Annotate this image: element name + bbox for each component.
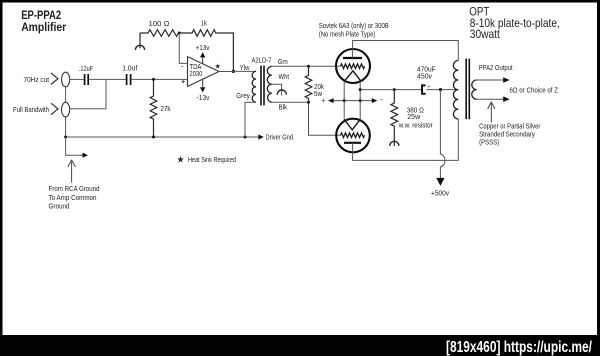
title OPT 8-10k plate-to-plate, 30watt xyxy=(469,5,560,41)
resistor 1k feedback xyxy=(179,18,233,71)
node junction bias tap xyxy=(359,88,362,91)
wire filament supply line xyxy=(333,100,372,102)
arrow Driver Gnd xyxy=(258,134,264,139)
svg-text:2030: 2030 xyxy=(190,71,203,78)
tube V2 bottom triode xyxy=(336,119,370,153)
svg-text:+500v: +500v xyxy=(431,189,449,198)
svg-text:Grn: Grn xyxy=(278,57,288,66)
svg-text:[819x460] https://upic.me/: [819x460] https://upic.me/ xyxy=(446,339,593,356)
T2 secondary winding xyxy=(472,80,477,99)
resistor 20k 5w xyxy=(305,66,324,102)
svg-text:.12uF: .12uF xyxy=(79,64,93,73)
ground bus wire xyxy=(66,136,259,138)
note Copper or Partial Silver Stranded Secondary (PSSS) xyxy=(479,121,541,146)
svg-text:-13v: -13v xyxy=(197,93,210,102)
svg-text:1.0uf: 1.0uf xyxy=(122,64,138,73)
arrow RCA note pointer xyxy=(68,160,76,183)
resistor 27k xyxy=(150,79,171,137)
capacitor 1.0uf xyxy=(122,64,138,85)
svg-text:30watt: 30watt xyxy=(470,28,501,41)
svg-text:EP-PPA2: EP-PPA2 xyxy=(21,9,61,22)
svg-text:Wht: Wht xyxy=(279,72,290,81)
svg-text:Ylw: Ylw xyxy=(240,63,251,72)
svg-text:Grey: Grey xyxy=(236,91,250,100)
wire Grn to top tube grid xyxy=(272,65,341,67)
wire Blk to bottom tube grid xyxy=(272,102,341,135)
node junction op-amp output xyxy=(232,70,235,73)
wire output to transformer xyxy=(219,70,256,72)
node junction filament left xyxy=(343,99,346,102)
arrow +500v xyxy=(436,178,444,186)
border frame right xyxy=(597,0,600,356)
node junction 27k bottom xyxy=(152,136,155,139)
wire output top xyxy=(477,79,504,81)
wire +500v drop with hop xyxy=(440,90,445,179)
arrow filament plus xyxy=(328,98,334,103)
svg-text:From RCA Ground: From RCA Ground xyxy=(49,184,100,193)
svg-text:Blk: Blk xyxy=(279,103,288,112)
svg-text:70Hz cut: 70Hz cut xyxy=(24,75,50,84)
wire signal line to .12uF xyxy=(70,78,84,80)
title EP-PPA2 Amplifier xyxy=(21,9,66,34)
border frame left xyxy=(0,0,3,356)
svg-text:PPA2 Output: PPA2 Output xyxy=(479,63,513,72)
svg-text:6Ω or Choice of Z: 6Ω or Choice of Z xyxy=(510,86,559,95)
wire full bandwidth bypass xyxy=(70,79,106,108)
arrow PSSS pointer xyxy=(488,102,495,123)
svg-text:100 Ω: 100 Ω xyxy=(149,19,171,28)
wire filament left lead xyxy=(343,81,345,119)
T1 core xyxy=(261,66,264,106)
border frame top xyxy=(0,0,600,3)
wire top plate to OPT xyxy=(353,41,459,61)
wire 1.0uf to op-amp + input xyxy=(132,78,188,80)
input jack J1 70Hz cut xyxy=(24,72,70,87)
svg-text:Ground: Ground xyxy=(49,202,70,211)
note Sovtek 6A3 (only) or 300B xyxy=(319,21,389,39)
wire output bottom xyxy=(477,98,504,100)
arrow RCA branch xyxy=(83,153,89,158)
svg-text:Sovtek 6A3 (only) or 300B: Sovtek 6A3 (only) or 300B xyxy=(319,21,389,30)
wire Grey to ground xyxy=(245,102,256,137)
node junction at 27k top xyxy=(152,78,155,81)
node junction filament right xyxy=(359,99,362,102)
note Heat Sink Required xyxy=(177,154,237,164)
svg-text:Heat Sink Required: Heat Sink Required xyxy=(188,155,236,164)
node junction Grey ground xyxy=(244,136,247,139)
svg-text:★: ★ xyxy=(177,154,185,164)
svg-text:(No mesh Plate Type): (No mesh Plate Type) xyxy=(319,30,376,39)
svg-text:Driver Gnd.: Driver Gnd. xyxy=(266,132,295,141)
wire jack ground chain xyxy=(65,87,67,137)
arrow filament minus xyxy=(372,98,378,103)
power +13v xyxy=(196,43,210,64)
arrow output bottom xyxy=(503,96,509,102)
svg-text:-: - xyxy=(380,95,383,104)
svg-text:w.w. resistor: w.w. resistor xyxy=(398,120,433,129)
resistor 380ohm 25w xyxy=(391,90,433,147)
wire .12uF to 1.0uf with full-bandwidth tap xyxy=(89,78,126,80)
svg-text:-: - xyxy=(181,61,184,70)
watermark bar xyxy=(0,335,600,356)
T1 secondary winding xyxy=(267,66,271,102)
capacitor .12uF xyxy=(79,64,93,85)
svg-text:27k: 27k xyxy=(161,104,171,113)
note From RCA Ground To Amp Common Ground xyxy=(49,184,100,211)
arrow output top xyxy=(503,77,509,83)
svg-text:20k: 20k xyxy=(314,84,324,91)
T1 primary winding xyxy=(252,71,256,102)
input jack J2 Full Bandwith xyxy=(13,102,70,117)
svg-text:★: ★ xyxy=(215,63,221,71)
svg-text:(PSSS): (PSSS) xyxy=(479,138,499,147)
wire Wht tap xyxy=(272,84,282,95)
wire capacitor to center tap xyxy=(427,89,459,91)
op-amp U1 TDA2030 xyxy=(181,57,219,87)
T2 core xyxy=(466,59,469,120)
capacitor 470uF 450v xyxy=(417,65,436,94)
wire filament right lead xyxy=(359,81,361,119)
power -13v xyxy=(197,79,210,102)
svg-text:+13v: +13v xyxy=(196,43,210,52)
svg-text:Amplifier: Amplifier xyxy=(21,21,66,34)
node junction feedback xyxy=(178,32,181,35)
transformer T1 A2LD-7 xyxy=(252,56,272,65)
wire RCA ground branch xyxy=(66,137,83,155)
wire bottom plate to OPT xyxy=(353,119,459,160)
node junction B+ xyxy=(439,88,442,91)
svg-text:+: + xyxy=(427,81,432,90)
ground arc symbol at 380ohm xyxy=(390,141,399,146)
svg-text:1k: 1k xyxy=(201,18,207,27)
svg-text:+: + xyxy=(321,98,325,105)
svg-text:450v: 450v xyxy=(417,71,432,80)
wire inverting input xyxy=(179,33,187,63)
ground arc symbol at Wht tap xyxy=(277,90,286,95)
tube V1 top triode xyxy=(336,49,370,83)
node junction 20k top xyxy=(307,65,310,68)
svg-text:Full Bandwith: Full Bandwith xyxy=(13,105,49,114)
transformer T2 OPT primary winding xyxy=(453,61,458,120)
svg-text:A2LD-7: A2LD-7 xyxy=(252,56,272,65)
node junction 20k bottom xyxy=(307,101,310,104)
ground arc symbol at 100ohm xyxy=(135,45,144,50)
node junction 380 top xyxy=(393,88,396,91)
node junction jack ground xyxy=(64,136,67,139)
wire bias line to capacitor xyxy=(360,89,421,91)
resistor 100ohm feedback pot xyxy=(140,19,179,48)
